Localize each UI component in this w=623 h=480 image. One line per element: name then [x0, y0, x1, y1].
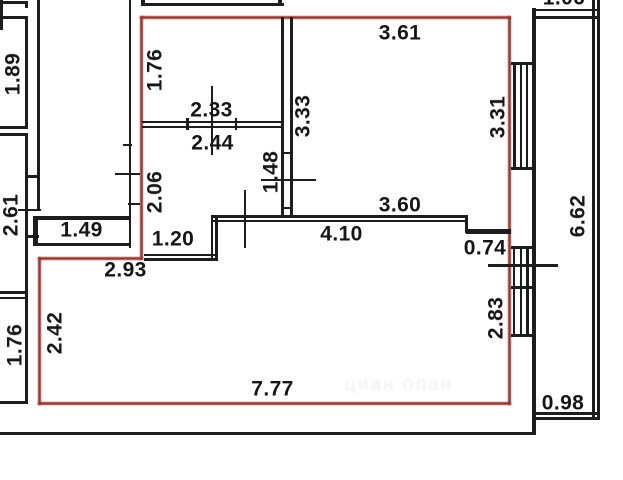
- wall: right wall of room 2.61 down to room 1.76: [25, 133, 28, 292]
- hall 1.49 bottom wall: [33, 243, 132, 246]
- wall 0.74: [466, 229, 511, 234]
- dimension line / top of hall 1.49: [18, 209, 41, 211]
- tick on wall 2.33 at x187: [186, 118, 189, 130]
- window1 glazing line 3: [526, 62, 529, 170]
- red outline: right wall: [508, 16, 511, 405]
- label 2.93: [104, 259, 146, 280]
- right shaft: top line: [534, 16, 600, 19]
- faint watermark: [345, 374, 495, 394]
- window2 top cap: [511, 246, 537, 249]
- dimension line vertical x245: [244, 190, 246, 248]
- red outline: lower-left wall: [38, 257, 41, 405]
- label 3.31: [487, 96, 508, 138]
- wall stub top-left of box: [141, 0, 145, 6]
- tick on wall 2.33 at x235: [235, 118, 238, 130]
- window1 bottom cap: [511, 167, 536, 170]
- label 6.62: [567, 194, 588, 236]
- corridor wall vertical: [129, 0, 132, 248]
- wall: second line above room 1.76: [0, 297, 27, 300]
- window2 glazing line 2: [520, 246, 523, 337]
- wall: top of room 1.89: [0, 16, 27, 19]
- wall: bottom of room 1.76: [0, 401, 28, 404]
- label 1.89: [2, 53, 23, 95]
- red outline: upper-left wall: [140, 16, 143, 260]
- label 2.44: [191, 133, 233, 154]
- door cap y208: [281, 207, 293, 210]
- door cap y152: [281, 152, 293, 155]
- label 1.20: [152, 228, 194, 249]
- left edge stub: [0, 0, 3, 30]
- long wall 4.10/3.60 upper line: [211, 215, 468, 218]
- dimension tick between 1.89 and 2.61: [25, 175, 41, 177]
- wall stub top-right of box: [278, 0, 282, 6]
- wall 2.33 lower line: [142, 126, 284, 129]
- wall: top of room 1.76 (bottom-left): [0, 291, 27, 294]
- window1 glazing line 2: [520, 62, 523, 170]
- label 2.61: [1, 194, 22, 236]
- wall 1.20 upper line: [144, 254, 218, 257]
- wall 1.20 lower line: [144, 258, 218, 261]
- window2 glazing line 3: [526, 246, 529, 337]
- tick on corridor wall y204: [128, 203, 140, 206]
- step vertical right line: [215, 215, 218, 261]
- window1 glazing line 1: [513, 62, 516, 170]
- label 1.06 clipped at top: [543, 0, 585, 8]
- wall foot at bottom of room 2.61: [25, 235, 39, 238]
- label 2.42: [45, 312, 66, 354]
- label 1.49: [60, 220, 102, 241]
- dimension extension line through 2.33/2.44: [211, 86, 213, 155]
- label 0.98: [542, 393, 584, 414]
- wall: small vertical stub top-left: [25, 1, 28, 8]
- interior double wall x281/290 (left line): [281, 17, 284, 216]
- label 3.33: [293, 95, 314, 137]
- right shaft: right wall outer line: [597, 0, 600, 420]
- label 2.33: [190, 99, 232, 120]
- right shaft: right wall inner line: [592, 0, 595, 420]
- label 0.74: [464, 237, 506, 258]
- interior wall x39: [37, 0, 40, 211]
- wall: bottom of room 1.89: [0, 126, 27, 129]
- label 1.76 top: [145, 49, 166, 91]
- hall 1.49 top wall: [33, 216, 131, 219]
- window2 bottom cap: [511, 334, 537, 337]
- right shaft: bottom line of 1.06 box: [534, 9, 600, 12]
- long wall 4.10/3.60 lower line: [211, 220, 468, 223]
- wall 2.33 upper line: [142, 121, 284, 124]
- label 4.10: [320, 224, 362, 245]
- label 3.60: [379, 195, 421, 216]
- building bottom outer wall: [0, 432, 535, 435]
- window1 top cap: [511, 62, 536, 65]
- hall 1.49 left wall: [33, 216, 38, 246]
- red outline: mid horizontal wall (2.93): [38, 257, 143, 260]
- step vertical left line: [211, 215, 214, 261]
- label 7.77: [251, 378, 293, 399]
- right shaft: bottom outer line: [534, 417, 600, 420]
- wall: right wall of room 1.89: [25, 16, 28, 129]
- wall: top of room 2.61: [0, 133, 27, 136]
- tick on corridor wall y174: [115, 173, 140, 176]
- wall: right wall of room 1.76: [25, 291, 28, 404]
- red outline: bottom wall: [38, 402, 512, 405]
- right shaft: bottom inner line: [534, 412, 600, 415]
- label 1.76 bottom-left: [5, 324, 26, 366]
- tick on corridor wall y145: [123, 144, 133, 147]
- label 2.06: [145, 171, 166, 213]
- building right outer wall: [532, 8, 536, 435]
- dimension line 1.48: [261, 179, 316, 181]
- interior double wall x281/290 (right line): [290, 17, 293, 216]
- top outer wall of flat: [142, 3, 284, 6]
- label 1.48: [261, 151, 282, 193]
- window2 glazing line 1: [513, 246, 516, 337]
- window2 middle cap: [511, 286, 537, 289]
- wall: top edge left stub: [0, 1, 27, 4]
- step down at x466: [465, 217, 469, 233]
- dimension line 2.83: [488, 264, 558, 267]
- label 2.83: [486, 296, 507, 338]
- red outline: top wall of highlighted flat: [140, 16, 512, 19]
- label 3.61: [379, 23, 421, 44]
